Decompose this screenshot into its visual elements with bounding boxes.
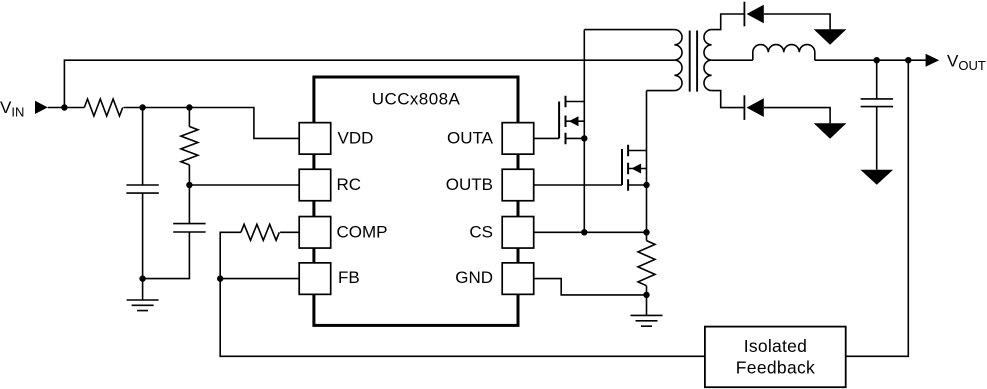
diode D1 cathode bar bbox=[743, 2, 745, 27]
wire VOUT node down to C3 bbox=[876, 60, 878, 99]
transistor Q2 channel dashes bbox=[627, 145, 629, 191]
wire R1 to VDD pin bbox=[124, 108, 300, 139]
wire OUTB to Q2 gate bbox=[534, 184, 622, 186]
wire C1 bottom to ground node bbox=[142, 193, 144, 279]
inductor L1 bbox=[753, 45, 815, 61]
svg-text:VIN: VIN bbox=[0, 98, 24, 120]
capacitor C1 bbox=[126, 185, 158, 193]
svg-text:CS: CS bbox=[469, 222, 493, 241]
resistor R4 (current sense) bbox=[638, 241, 655, 286]
wire secondary bottom lead to D2 bbox=[712, 91, 745, 108]
wire C2 top to junction D bbox=[188, 185, 190, 224]
node Q1 source junction dot bbox=[581, 135, 587, 141]
wire GND pin to sense ground bbox=[534, 279, 647, 295]
wire Q2 drain-source rail bbox=[646, 91, 648, 241]
node Q2 source junction dot bbox=[643, 182, 649, 188]
transformer T1 primary winding bbox=[674, 30, 682, 91]
VOUT arrow bbox=[926, 54, 940, 67]
isolated feedback block bbox=[705, 327, 846, 388]
capacitor C2 bbox=[173, 224, 205, 232]
node C junction dot bbox=[186, 104, 192, 110]
svg-text:Feedback: Feedback bbox=[736, 357, 815, 377]
resistor R3 (COMP) bbox=[241, 224, 279, 240]
svg-text:OUTA: OUTA bbox=[447, 129, 494, 148]
wire junction E to FB pin bbox=[220, 278, 299, 280]
wire R3 to COMP pin bbox=[280, 231, 299, 233]
wire L1 to VOUT bbox=[815, 59, 926, 61]
wire junction E down and bottom rail to feedback box bbox=[220, 279, 705, 357]
diode D2 cathode bar bbox=[743, 95, 745, 120]
wire D1 to down arrow bbox=[764, 14, 830, 29]
wire junction B down to C1 bbox=[142, 108, 144, 186]
pin box FB bbox=[299, 263, 331, 295]
node G1 junction dot bbox=[139, 275, 145, 281]
transistor Q2 stubs bbox=[628, 151, 646, 186]
svg-text:RC: RC bbox=[337, 175, 362, 194]
node B junction dot bbox=[139, 104, 145, 110]
pin box CS bbox=[502, 217, 534, 249]
node D junction dot bbox=[186, 182, 192, 188]
wire bottom link C1 to C2 bbox=[143, 232, 190, 279]
svg-text:GND: GND bbox=[455, 268, 493, 287]
pin box COMP bbox=[299, 217, 331, 249]
pin box VDD bbox=[299, 123, 331, 154]
node CS-Q1 junction dot bbox=[581, 229, 587, 235]
node CS-Q2 junction dot bbox=[643, 229, 649, 235]
wire secondary top lead to D1 bbox=[712, 14, 745, 30]
wire CS pin to sense node bbox=[534, 231, 647, 233]
resistor R1 (series input) bbox=[84, 99, 122, 116]
pin box GND bbox=[502, 263, 534, 295]
transistor Q1 gate bar bbox=[558, 102, 560, 139]
diode D2 triangle bbox=[747, 98, 764, 117]
transistor Q2 body arrow bbox=[631, 164, 641, 174]
VIN input arrow bbox=[35, 101, 48, 114]
wire VOUT junction down to feedback box bbox=[846, 60, 909, 356]
svg-text:OUTB: OUTB bbox=[446, 175, 493, 194]
wire junction D to RC pin bbox=[189, 184, 299, 186]
svg-text:UCCx808A: UCCx808A bbox=[372, 90, 461, 109]
pin box RC bbox=[299, 169, 331, 201]
transistor Q1 stubs bbox=[566, 102, 585, 139]
ground arrow 3 bbox=[860, 170, 893, 185]
wire OUTA to Q1 gate bbox=[534, 137, 559, 139]
wire primary top lead bbox=[584, 29, 674, 31]
wire VIN rail up and across to transformer center tap bbox=[64, 60, 674, 107]
transformer T1 core bbox=[690, 31, 697, 92]
node sense ground junction dot bbox=[643, 292, 649, 298]
wire junction C down to R2 bbox=[188, 108, 190, 127]
ground arrow 2 bbox=[814, 123, 847, 139]
svg-text:VDD: VDD bbox=[338, 129, 374, 148]
transistor Q2 gate bar bbox=[621, 149, 623, 185]
wire COMP left segment bbox=[220, 232, 241, 278]
resistor R2 (vertical, RC) bbox=[181, 127, 198, 165]
node G junction dot bbox=[905, 57, 911, 63]
pin box OUTB bbox=[502, 169, 534, 201]
node A junction dot bbox=[61, 104, 67, 110]
node F junction dot bbox=[874, 57, 880, 63]
wire D2 to down arrow bbox=[764, 108, 830, 124]
ground arrow 1 bbox=[814, 29, 847, 45]
svg-text:COMP: COMP bbox=[337, 222, 388, 241]
wire Q1 drain-source rail bbox=[583, 30, 585, 233]
ground G2 bbox=[631, 295, 663, 326]
pin box OUTA bbox=[502, 123, 534, 154]
svg-text:FB: FB bbox=[338, 268, 360, 287]
svg-text:Isolated: Isolated bbox=[744, 336, 807, 356]
wire R4 to ground node bbox=[646, 286, 648, 295]
wire C3 to ground arrow bbox=[876, 107, 878, 170]
node E junction dot bbox=[217, 275, 223, 281]
transistor Q1 channel dashes bbox=[565, 96, 567, 144]
op-amp U1 IC body UCCx808A bbox=[314, 77, 518, 325]
transistor Q1 body arrow bbox=[569, 116, 579, 126]
wire R2 to junction D bbox=[188, 165, 190, 185]
capacitor C3 bbox=[861, 99, 894, 107]
wire primary bottom lead bbox=[647, 90, 675, 92]
svg-text:VOUT: VOUT bbox=[947, 51, 986, 73]
ground G1 bbox=[127, 279, 159, 311]
diode D1 triangle bbox=[747, 5, 764, 24]
wire secondary center tap to L1 bbox=[712, 59, 753, 61]
wire VIN to R1 bbox=[48, 107, 85, 109]
transformer T1 secondary winding bbox=[704, 30, 712, 91]
